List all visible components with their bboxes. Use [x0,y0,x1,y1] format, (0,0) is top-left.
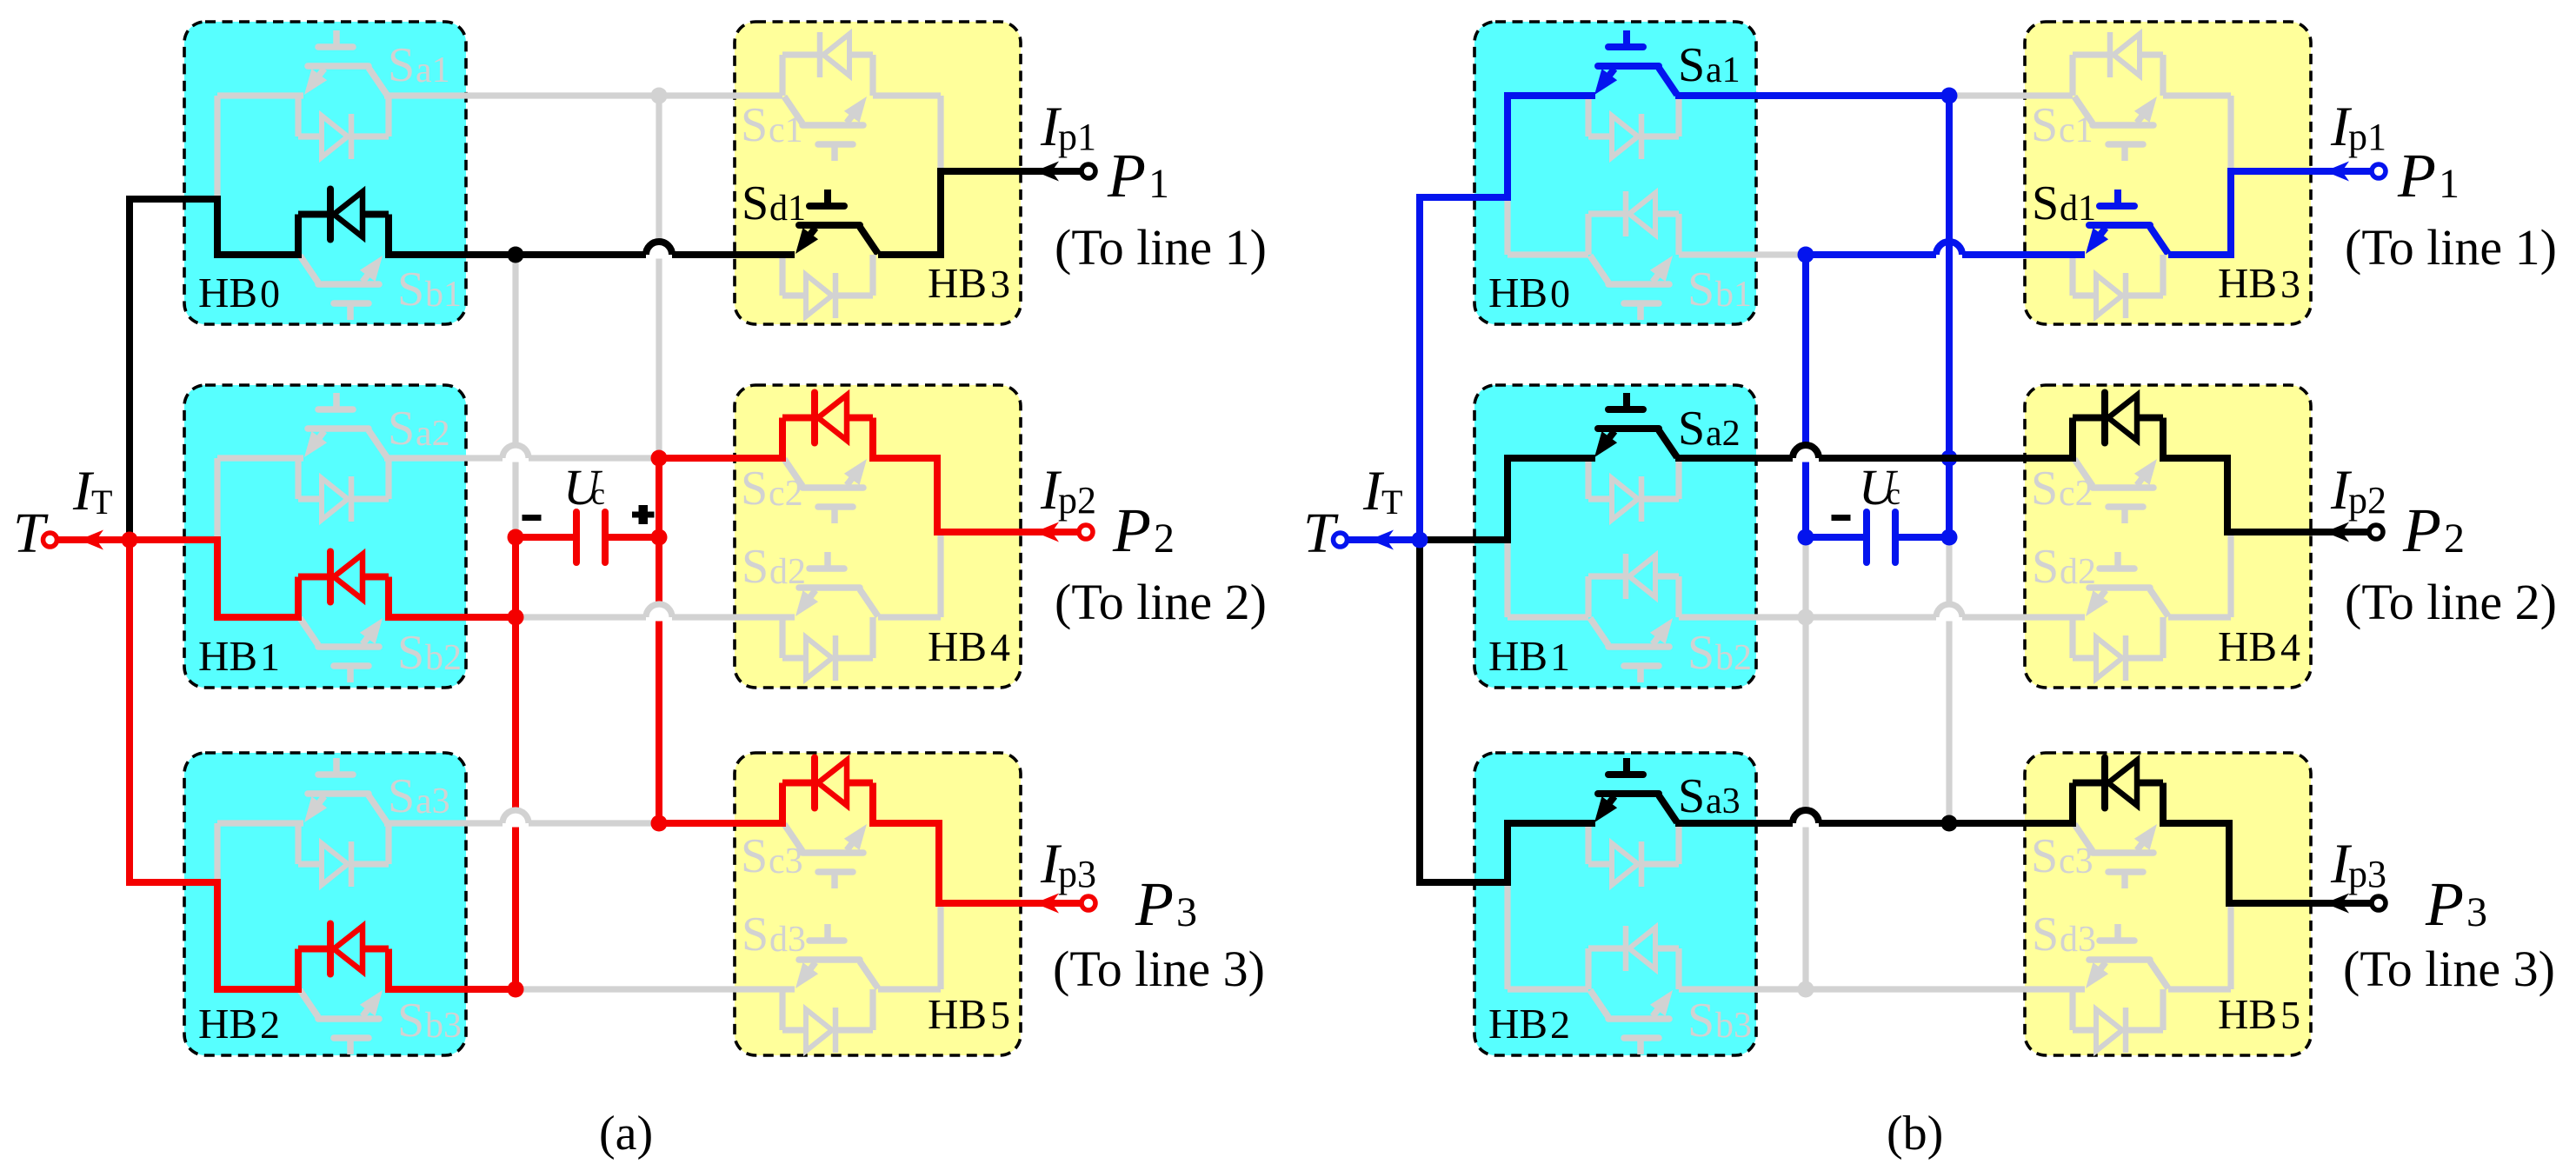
svg-text:S: S [2031,829,2058,883]
svg-text:a2: a2 [416,414,450,454]
wire hop (no connection) [655,243,664,259]
svg-text:S: S [388,38,415,92]
terminal P1 [1082,164,1095,178]
svg-text:(To line 2): (To line 2) [2345,574,2557,630]
wire Sb3 diode to left rail (red) [389,949,516,990]
half-bridge box HB0 (cyan) [1474,22,1756,324]
transistor Sa2 cell (IGBT + antiparallel diode) [304,393,387,457]
svg-text:p1: p1 [1058,116,1096,158]
wire DC rail left (red portion) [512,537,519,989]
arrow Ip3 [1035,894,1059,914]
svg-text:HB: HB [1488,1000,1548,1048]
svg-text:b2: b2 [1715,638,1752,678]
half-bridge box HB3 (yellow) [735,22,1021,324]
bump black over left rail [1819,418,2073,459]
svg-text:S: S [388,402,415,456]
node Sd1 feed (blue) [1798,247,1814,263]
diode Sc3 (active, red) [811,758,818,808]
svg-text:c2: c2 [769,474,803,514]
svg-text:P: P [1135,869,1174,939]
node Sc2 feed [651,450,668,467]
wire Sb1/Sd1 level segments [1508,251,1588,257]
svg-text:S: S [2031,462,2058,515]
svg-text:P: P [2425,869,2464,939]
wire Sd1 level (blue) from left rail to HB3 [1806,251,1936,258]
svg-text:HB: HB [198,1000,257,1048]
svg-text:d3: d3 [769,920,806,960]
arrow IT [79,530,103,550]
wire Sb3/Sd3 level segments [516,986,795,992]
wire hop (no connection) [1801,447,1811,462]
wire active path P1 (black) from T riser through Sb1 diode to HB3 [130,199,298,540]
svg-text:p2: p2 [2348,479,2386,522]
svg-text:1: 1 [2439,161,2460,207]
wire Sd2 right + vertical to P2 junction [878,614,941,620]
svg-text:P: P [1112,496,1151,565]
svg-text:a1: a1 [416,50,450,90]
wire phase-leg vertical HB1 [1504,458,1510,617]
svg-text:2: 2 [2444,515,2465,562]
transistor Sa1 cell (IGBT + antiparallel diode) [1594,30,1677,95]
svg-text:S: S [1687,263,1714,316]
svg-text:a3: a3 [1706,782,1741,821]
svg-text:3: 3 [1176,889,1197,935]
svg-text:0: 0 [1550,271,1570,316]
wire Sa3 level segments [1508,820,1594,826]
svg-text:c1: c1 [769,110,803,150]
diode Sb1 (active, black) [327,190,334,240]
svg-text:d2: d2 [2060,552,2096,592]
node Sc1 feed (gray) [651,88,668,104]
transistor Sc1 cell (IGBT + antiparallel diode) [784,96,867,161]
wire phase-leg vertical HB1 [214,458,220,617]
svg-text:S: S [1687,994,1714,1048]
node cap left [508,529,524,546]
wire hop (no connection) [1945,606,1954,622]
arrow Ip3 (black) [2325,894,2349,914]
svg-text:(a): (a) [599,1107,653,1161]
svg-text:HB: HB [198,269,257,316]
wire active path T feed (red) [57,540,298,617]
svg-text:p1: p1 [2348,116,2386,158]
arrow Ip1 (blue) [2325,162,2349,182]
svg-text:5: 5 [990,993,1010,1037]
half-bridge box HB1 (cyan) [1474,385,1756,688]
wire phase-leg vertical HB0 [214,96,220,255]
svg-text:(To line 3): (To line 3) [2343,941,2555,997]
node cap left (blue) [1798,529,1814,546]
terminal P2 [1079,525,1093,539]
half-bridge box HB5 (yellow) [735,753,1021,1055]
svg-text:HB: HB [2218,990,2277,1038]
wire Sa1 level segments [217,92,303,98]
svg-text:d1: d1 [769,189,806,229]
transistor Sb3 cell (IGBT + antiparallel diode) [1590,990,1673,1054]
transistor Sb2 cell (IGBT + antiparallel diode) [1590,618,1673,682]
node rail end - Sa3 path (black) [1941,815,1958,832]
wire DC rail left (gray portion) [1802,537,1808,989]
svg-text:5: 5 [2280,993,2300,1037]
half-bridge box HB4 (yellow) [2025,385,2311,688]
transistor Sa1 cell (IGBT + antiparallel diode) [304,30,387,95]
wire hop (no connection) [511,812,521,828]
svg-text:P: P [2402,496,2441,565]
wire DC rail right (blue) [1946,96,1953,537]
svg-text:c3: c3 [769,841,803,881]
transistor Sa3 cell (IGBT + antiparallel diode) [304,758,387,822]
svg-text:a1: a1 [1706,50,1741,90]
svg-text:S: S [741,829,768,883]
svg-text:b3: b3 [425,1006,462,1046]
half-bridge box HB2 (cyan) [184,753,466,1055]
svg-text:3: 3 [990,262,1010,306]
node Sb1-rail junction [508,247,524,263]
svg-text:HB: HB [2218,259,2277,307]
wire active path P2 (red) through Sc2 diode [659,418,782,459]
capacitor Uc (red) [516,534,576,541]
terminal P3 (black) [2372,896,2386,910]
svg-text:S: S [1678,402,1705,456]
transistor Sd2 cell (IGBT + antiparallel diode) [795,552,878,616]
wire Sd3 right + vertical to P3 junction [878,986,941,992]
wire DC rail left (gray portion) [512,255,518,537]
svg-text:S: S [388,769,415,823]
wire phase-leg vertical HB0 [1504,96,1510,255]
svg-text:4: 4 [990,625,1010,669]
svg-text:4: 4 [2280,625,2300,669]
wire Sa2 level segments [1508,455,1594,461]
terminal P2 (black) [2369,525,2383,539]
svg-text:S: S [2031,98,2058,152]
node cap right [651,529,668,546]
wire active path P2 (black) from T through Sa2 [1420,458,1595,540]
transistor Sc2 cell (IGBT + antiparallel diode) [784,459,867,523]
diode Sb3 (active, red) [327,924,334,974]
transistor Sc3 cell (IGBT + antiparallel diode) [2074,824,2157,888]
node T junction [122,532,138,549]
transistor Sb3 cell (IGBT + antiparallel diode) [300,990,383,1054]
svg-text:a2: a2 [1706,414,1741,454]
wire active path P1 (black) continued [389,215,646,256]
svg-text:3: 3 [2280,262,2300,306]
diode Sb2 (active, red) [327,552,334,602]
svg-text:d1: d1 [2060,189,2096,229]
svg-text:HB: HB [2218,622,2277,670]
wire active path P3 (red) through Sc3 diode [659,783,782,824]
wire Sd2 right + vertical to P2 junction [2168,614,2231,620]
svg-text:HB: HB [928,990,987,1038]
wire Sc1 right + vertical to P1 junction [873,92,941,98]
wire Sa1 level segments [1508,92,1594,98]
transistor Sd1 cell (IGBT + antiparallel diode) [795,190,878,254]
svg-text:S: S [742,908,769,961]
wire hop (no connection) [1945,243,1954,259]
svg-text:c: c [591,476,605,511]
svg-text:HB: HB [1488,632,1548,680]
wire Sb2/Sd2 level segments [516,614,646,620]
node cap right (blue) [1941,529,1958,546]
svg-text:HB: HB [1488,269,1548,316]
svg-text:c: c [1887,476,1900,511]
svg-text:0: 0 [260,271,280,316]
node Sb3-rail [508,981,524,998]
diode Sc3 (active, black) [2101,758,2108,808]
bump blue over right rail [1962,251,2085,258]
svg-text:S: S [2032,540,2059,594]
svg-text:1: 1 [1148,161,1169,207]
svg-text:S: S [397,263,424,316]
svg-text:S: S [742,176,769,230]
wire Sb3/Sd3 level segments [1508,986,1588,992]
half-bridge box HB1 (cyan) [184,385,466,688]
svg-text:S: S [1678,38,1705,92]
bump black over left rail (row 3) [1819,783,2073,824]
transistor Sb1 cell (IGBT + antiparallel diode) [300,256,383,320]
svg-text:c2: c2 [2059,474,2093,514]
transistor Sc1 cell (IGBT + antiparallel diode) [2074,96,2157,161]
wire phase-leg vertical HB2 [1504,823,1510,989]
svg-text:a3: a3 [416,782,450,821]
svg-text:c1: c1 [2059,110,2093,150]
terminal T [43,533,57,547]
wire Sa3 level segments [217,820,303,826]
svg-text:b3: b3 [1715,1006,1752,1046]
svg-text:(To line 1): (To line 1) [1055,219,1267,276]
svg-text:(To line 2): (To line 2) [1055,574,1267,630]
transistor Sb2 cell (IGBT + antiparallel diode) [300,618,383,682]
terminal P1 (blue) [2372,164,2386,178]
half-bridge box HB5 (yellow) [2025,753,2311,1055]
half-bridge box HB3 (yellow) [2025,22,2311,324]
svg-text:(To line 1): (To line 1) [2345,219,2557,276]
svg-text:S: S [397,626,424,680]
wire Sa2 level segments [217,455,303,461]
svg-text:S: S [1687,626,1714,680]
svg-text:P: P [1107,141,1146,210]
svg-text:T: T [1381,482,1402,522]
wire hop (no connection) [511,447,521,462]
wire phase-leg vertical HB2 [214,823,220,989]
diode Sc2 (active, black) [2101,393,2108,443]
wire hop (no connection) [1801,812,1811,828]
wire Sd3 right + vertical to P3 junction [2168,986,2231,992]
transistor Sd3 cell (IGBT + antiparallel diode) [795,924,878,988]
terminal P3 [1082,896,1095,910]
terminal T (blue) [1334,533,1348,547]
node Sc3 feed [651,815,668,832]
svg-text:c3: c3 [2059,841,2093,881]
svg-text:S: S [742,540,769,594]
node Sb3 level left rail (gray) [1798,981,1814,998]
wire DC rail right (gray portion) [656,96,662,458]
transistor Sd1 cell (IGBT + antiparallel diode) [2086,190,2168,254]
wire Sb2/Sd2 level segments [1508,614,1588,620]
label minus [523,515,542,521]
svg-text:HB: HB [928,259,987,307]
svg-text:HB: HB [928,622,987,670]
svg-text:2: 2 [1550,1002,1570,1047]
transistor Sd3 cell (IGBT + antiparallel diode) [2086,924,2168,988]
wire Sc1 right + vertical to P1 junction [2163,92,2231,98]
wire DC rail right (gray portion) [1946,537,1952,823]
svg-text:b1: b1 [425,275,462,315]
svg-text:p3: p3 [2348,853,2386,895]
svg-text:P: P [2397,141,2436,210]
svg-text:1: 1 [1550,635,1570,679]
svg-text:S: S [741,462,768,515]
svg-text:S: S [741,98,768,152]
label plus [636,512,655,518]
svg-text:T: T [91,482,112,522]
node Sd2 level left rail (gray) [1798,609,1814,626]
node T junction (blue) [1412,532,1428,549]
svg-text:b1: b1 [1715,275,1752,315]
svg-text:HB: HB [198,632,257,680]
svg-text:3: 3 [2466,889,2487,935]
transistor Sc3 cell (IGBT + antiparallel diode) [784,824,867,888]
svg-text:S: S [2032,908,2059,961]
transistor Sa2 cell (IGBT + antiparallel diode) [1594,393,1677,457]
arrow Ip1 [1035,162,1059,182]
node Sb2-rail [508,609,524,626]
node rail-Sa2 crossing (blue) [1941,450,1958,467]
wire active path P1 (blue) from T through Sa1 [1348,536,1420,543]
svg-text:T: T [1303,502,1339,565]
half-bridge box HB0 (cyan) [184,22,466,324]
half-bridge box HB4 (yellow) [735,385,1021,688]
svg-text:p2: p2 [1058,479,1096,522]
capacitor Uc (blue) [1806,534,1867,541]
svg-text:1: 1 [260,635,280,679]
transistor Sb1 cell (IGBT + antiparallel diode) [1590,256,1673,320]
transistor Sd2 cell (IGBT + antiparallel diode) [2086,552,2168,616]
svg-text:b2: b2 [425,638,462,678]
arrow Ip2 (black) [2325,522,2349,542]
svg-text:d3: d3 [2060,920,2096,960]
svg-text:(b): (b) [1887,1107,1943,1161]
svg-text:S: S [2032,176,2059,230]
label minus [1832,515,1851,521]
svg-text:d2: d2 [769,552,806,592]
svg-text:S: S [397,994,424,1048]
wire DC rail right (red portion) [656,458,662,823]
wire active path P3 (black) from T through Sa3 [1420,540,1595,882]
bump P1 path over right rail [672,251,795,258]
svg-text:T: T [13,502,49,565]
diode Sc2 (active, red) [811,393,818,443]
node Sa1-rail junction (blue) [1941,88,1958,104]
transistor Sa3 cell (IGBT + antiparallel diode) [1594,758,1677,822]
label plus [632,512,651,518]
svg-text:2: 2 [260,1002,280,1047]
arrow IT (blue) [1369,530,1394,550]
svg-text:S: S [1678,769,1705,823]
arrow Ip2 [1035,522,1059,542]
svg-text:(To line 3): (To line 3) [1053,941,1265,997]
svg-text:p3: p3 [1058,853,1096,895]
half-bridge box HB2 (cyan) [1474,753,1756,1055]
transistor Sc2 cell (IGBT + antiparallel diode) [2074,459,2157,523]
wire hop (no connection) [655,606,664,622]
wire DC rail left (blue) [1802,255,1809,537]
wire T down-branch to HB2 (red) [130,540,298,989]
wire Sb2 diode to left rail (red) [389,577,516,618]
svg-text:2: 2 [1154,515,1175,562]
